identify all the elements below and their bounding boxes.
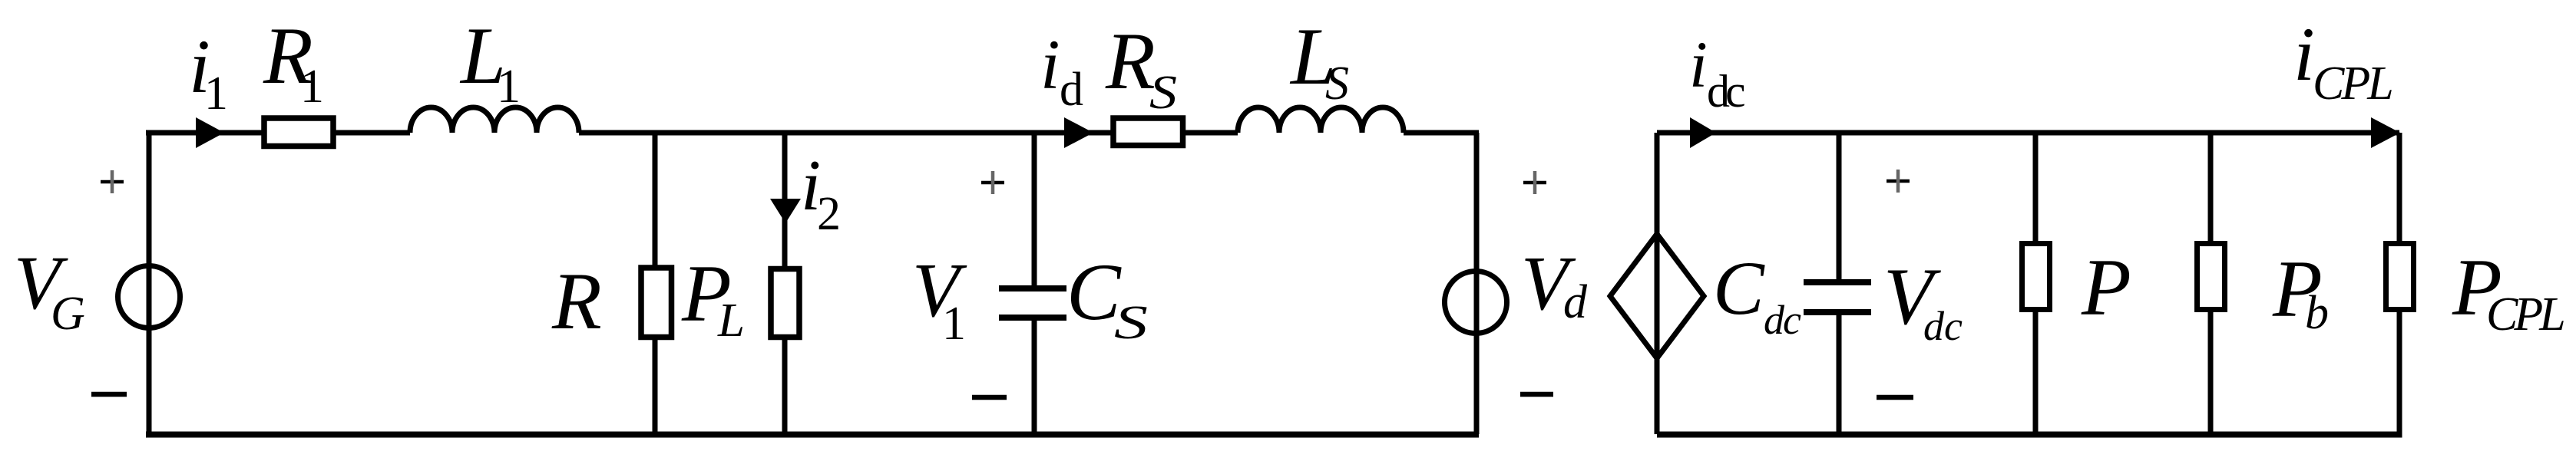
- resistor Pb: [2197, 244, 2225, 310]
- label i1: [189, 24, 228, 120]
- wire: circuit1 top segment left: [146, 130, 410, 136]
- wire: R branch vertical: [653, 133, 658, 434]
- capacitor Cdc: [1804, 282, 1871, 312]
- wire: circuit2 top: [1657, 130, 2399, 136]
- wire: CS branch lower: [1032, 316, 1037, 434]
- label PL: [681, 249, 745, 347]
- wire: circuit1 bottom: [146, 432, 1479, 438]
- minus sign Vd: [1520, 392, 1553, 397]
- plus sign Vd: [1523, 171, 1546, 194]
- svg-text:CPL: CPL: [2486, 288, 2564, 341]
- label V1: [912, 247, 967, 350]
- minus sign VG: [91, 392, 127, 397]
- minus sign Vdc: [1877, 395, 1913, 400]
- inductor LS: [1238, 107, 1404, 133]
- wire: circuit2 left vertical: [1655, 133, 1660, 434]
- arrow i2: [770, 199, 801, 223]
- voltage source VG: [118, 266, 180, 328]
- resistor PCPL: [2386, 244, 2414, 310]
- wire: P branch vertical: [2033, 133, 2039, 434]
- arrow iCPL: [2371, 117, 2400, 148]
- label id: [1040, 25, 1083, 116]
- capacitor CS: [999, 288, 1066, 318]
- svg-text:1: 1: [942, 298, 966, 350]
- wire: CS branch upper: [1032, 133, 1037, 287]
- wire: PL branch vertical: [782, 133, 788, 434]
- voltage source Vd: [1445, 272, 1507, 334]
- svg-text:CPL: CPL: [2313, 58, 2392, 110]
- wire: Cdc branch upper: [1837, 133, 1842, 281]
- dependent source Cdc diamond: [1610, 234, 1704, 358]
- label Pb: [2272, 244, 2329, 339]
- label Vdc: [1883, 252, 1963, 349]
- svg-text:L: L: [717, 295, 745, 347]
- label RS: [1105, 16, 1177, 119]
- label CS: [1066, 247, 1148, 349]
- label Vd: [1521, 240, 1588, 328]
- plus sign VG: [101, 170, 124, 193]
- wire: circuit1 top segment right: [1404, 130, 1479, 136]
- svg-text:S: S: [1114, 297, 1148, 349]
- svg-text:i: i: [2293, 12, 2315, 97]
- wire: Cdc branch lower: [1837, 311, 1842, 434]
- svg-text:2: 2: [817, 188, 841, 240]
- arrow id: [1064, 117, 1093, 148]
- resistor PL: [771, 269, 799, 338]
- label i2: [801, 146, 841, 240]
- plus sign V1: [981, 171, 1004, 194]
- svg-text:dc: dc: [1923, 303, 1963, 349]
- resistor RS: [1113, 118, 1183, 146]
- svg-text:C: C: [1713, 245, 1765, 331]
- svg-text:R: R: [1105, 16, 1156, 106]
- resistor R: [641, 268, 672, 338]
- svg-text:i: i: [1689, 28, 1708, 101]
- svg-text:S: S: [1325, 58, 1349, 110]
- svg-text:dc: dc: [1707, 66, 1744, 117]
- svg-text:b: b: [2305, 287, 2329, 339]
- wire: circuit2 bottom: [1657, 432, 2402, 438]
- svg-text:1: 1: [204, 68, 228, 120]
- arrow i1: [196, 117, 224, 148]
- wire: circuit1 left vertical: [147, 133, 152, 434]
- svg-text:S: S: [1149, 67, 1177, 119]
- resistor P: [2022, 244, 2050, 310]
- wire: circuit1 right vertical: [1474, 133, 1480, 434]
- svg-text:1: 1: [497, 61, 521, 113]
- arrow idc: [1690, 117, 1716, 148]
- svg-text:R: R: [551, 256, 602, 346]
- wire: circuit1 top segment middle: [579, 130, 1238, 136]
- svg-text:d: d: [1060, 64, 1083, 116]
- wire: PCPL branch vertical: [2397, 133, 2402, 434]
- inductor L1: [410, 107, 579, 133]
- label Cdc: [1713, 245, 1801, 343]
- svg-text:1: 1: [300, 61, 324, 113]
- plus sign Vdc: [1887, 170, 1910, 193]
- label PCPL: [2452, 242, 2564, 341]
- resistor R1: [264, 118, 333, 147]
- label iCPL: [2293, 12, 2392, 110]
- svg-text:P: P: [2081, 242, 2131, 332]
- label VG: [14, 240, 85, 340]
- minus sign V1: [972, 395, 1007, 400]
- wire: Pb branch vertical: [2208, 133, 2214, 434]
- svg-text:dc: dc: [1764, 297, 1801, 343]
- label L1: [459, 11, 521, 113]
- label R1: [263, 11, 324, 113]
- label idc: [1689, 28, 1744, 117]
- svg-text:G: G: [51, 288, 85, 340]
- label LS: [1289, 12, 1349, 110]
- svg-text:i: i: [1040, 25, 1060, 104]
- svg-text:d: d: [1563, 276, 1588, 328]
